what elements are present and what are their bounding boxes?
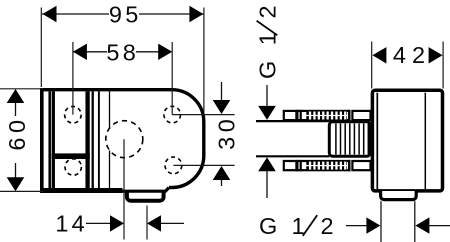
svg-text:2: 2 <box>321 213 334 239</box>
svg-text:95: 95 <box>109 2 142 28</box>
svg-text:G: G <box>259 213 277 239</box>
svg-text:G: G <box>255 61 281 79</box>
svg-text:30: 30 <box>214 115 240 150</box>
svg-text:42: 42 <box>393 42 431 68</box>
svg-text:14: 14 <box>55 211 88 237</box>
svg-text:2: 2 <box>255 5 281 18</box>
svg-text:58: 58 <box>106 40 139 66</box>
svg-text:60: 60 <box>4 115 30 150</box>
